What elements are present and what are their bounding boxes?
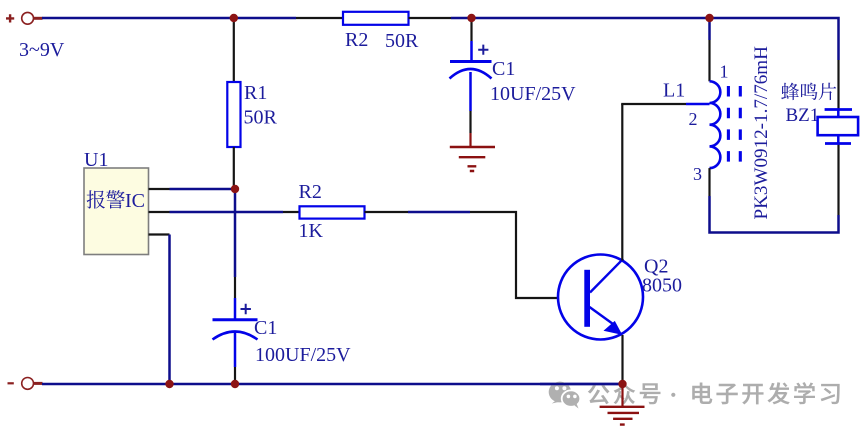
svg-text:3~9V: 3~9V: [19, 39, 65, 61]
capacitor C1 10UF lead (blue): [470, 41, 473, 61]
minus terminal symbol: [8, 382, 14, 384]
buzzer BZ1 bottom plate: [825, 142, 851, 145]
wire to base jog (navy): [408, 211, 470, 214]
wire node B down (navy): [234, 189, 237, 277]
svg-text:50R: 50R: [385, 30, 419, 52]
ground symbol (under C1): [450, 147, 495, 171]
capacitor C1 top plate: [450, 60, 492, 63]
wire right branch down to buzzer (black): [837, 60, 839, 109]
wire top rail left (navy): [42, 17, 296, 20]
terminal circle (-): [22, 378, 34, 390]
svg-text:BZ1: BZ1: [786, 105, 820, 126]
U1 pin wire 3 down to bottom rail (navy): [168, 235, 171, 385]
wire stub from + terminal: [34, 17, 43, 20]
U1 pin wire 2 (black): [149, 211, 170, 213]
svg-text:R2: R2: [299, 181, 322, 203]
wire top node stub (navy): [708, 18, 711, 40]
C1 100UF bottom lead (blue): [234, 333, 237, 368]
svg-text:10UF/25V: 10UF/25V: [490, 83, 576, 105]
wire top rail to R2 (black): [296, 17, 343, 19]
buzzer BZ1 top plate: [825, 108, 852, 111]
svg-text:U1: U1: [84, 149, 108, 171]
wire bottom rail (navy): [42, 383, 623, 386]
wire node A down to R1 (black): [233, 18, 235, 82]
C1 lead (black): [469, 111, 471, 133]
wire R2 1K right (black): [365, 211, 409, 213]
transistor Q2 circle: [558, 255, 643, 340]
svg-text:50R: 50R: [244, 107, 278, 129]
svg-text:1: 1: [720, 62, 729, 82]
L1 core dashed line 2: [739, 86, 742, 163]
wire R1 to node B (black): [233, 147, 235, 189]
Q2 emitter line: [590, 307, 614, 324]
wire C1 node to L1 node (navy): [451, 17, 709, 20]
wire bottom rail over icon: [540, 383, 592, 386]
watermark text 公众号·电子开发学习: [588, 382, 840, 404]
Q2 collector line: [590, 259, 623, 293]
U1 pin wire 1 to node B (navy): [170, 188, 236, 191]
wire coil bottom loop (navy): [710, 196, 839, 233]
plus terminal symbol: [6, 14, 14, 22]
C1 bottom lead (blue): [469, 72, 472, 111]
capacitor C1 100UF top plate: [213, 318, 258, 321]
U1 pin wire 1 (black): [149, 188, 170, 190]
svg-text:1K: 1K: [299, 220, 324, 242]
svg-text:IC: IC: [125, 190, 145, 212]
svg-text:L1: L1: [663, 80, 685, 102]
svg-text:R1: R1: [244, 82, 267, 104]
wire buzzer bottom (black): [837, 145, 839, 216]
wire stub from - terminal: [34, 382, 43, 385]
IC U1 box: [84, 168, 149, 255]
plus mark of C1: [478, 45, 488, 55]
svg-text:PK3W0912-1.7/76mH: PK3W0912-1.7/76mH: [751, 46, 772, 220]
junction dot 2: [467, 14, 475, 22]
wire collector to coil tap (black): [621, 103, 686, 105]
plus mark of C1 100UF: [241, 304, 251, 314]
junction dot 1: [230, 14, 238, 22]
ground symbol (bottom): [600, 407, 645, 425]
wire coil bottom (black): [708, 168, 710, 196]
wire emitter down (black): [621, 335, 623, 384]
buzzer BZ1 crystal rect: [818, 117, 859, 135]
Q2 base bar: [584, 270, 590, 327]
resistor R2 50R: [343, 12, 409, 25]
svg-text:3: 3: [693, 164, 702, 184]
junction dot 5: [165, 380, 173, 388]
wire bottom rail overlay: [592, 383, 623, 386]
junction dot 3: [705, 14, 713, 22]
svg-text:100UF/25V: 100UF/25V: [255, 344, 351, 366]
ground stub (dark red): [621, 384, 623, 407]
U1 pin wire 3 (black): [149, 233, 170, 235]
junction dot 7: [618, 380, 626, 388]
label 报警IC: [87, 190, 145, 212]
inductor L1 coil: [710, 81, 721, 168]
svg-text:2: 2: [689, 109, 698, 129]
U1 pin wire 2 to R2 (navy): [170, 211, 284, 214]
C1 lead to ground (dark red): [469, 133, 471, 147]
wire node B lower segment (black): [234, 277, 236, 298]
wire collector up (black): [621, 104, 623, 261]
wire top node down to coil (black): [708, 40, 710, 81]
wire R2 to C1 node (black): [409, 17, 452, 19]
svg-text:R2: R2: [345, 29, 368, 51]
svg-text:C1: C1: [492, 58, 515, 80]
junction dot 6: [231, 380, 239, 388]
capacitor C1 100UF curved plate: [213, 332, 258, 340]
buzzer top stub: [837, 110, 840, 118]
capacitor C1 curved plate: [450, 69, 492, 79]
buzzer bottom stub: [837, 135, 840, 143]
L1 core dashed line 1: [727, 86, 730, 163]
resistor R1 50R: [227, 82, 240, 147]
wire L1 node to right corner (navy): [709, 18, 839, 60]
Q2 emitter arrow: [604, 321, 623, 335]
wire jog down to base (black): [470, 212, 584, 298]
wire tap lead (blue): [686, 103, 710, 106]
capacitor C1 100UF top lead (blue): [234, 298, 237, 319]
junction dot 4: [231, 185, 239, 193]
resistor R2 1K: [300, 206, 365, 218]
C1 100UF lead to rail (black): [234, 367, 236, 384]
svg-text:C1: C1: [254, 317, 277, 339]
U1 pin wire 2 short black before R2: [283, 211, 300, 213]
svg-text:8050: 8050: [642, 275, 682, 297]
label 蜂鸣片: [781, 83, 836, 100]
watermark wechat icon: [549, 382, 571, 404]
terminal circle (+): [22, 12, 34, 24]
wire node C down (black): [470, 18, 472, 41]
